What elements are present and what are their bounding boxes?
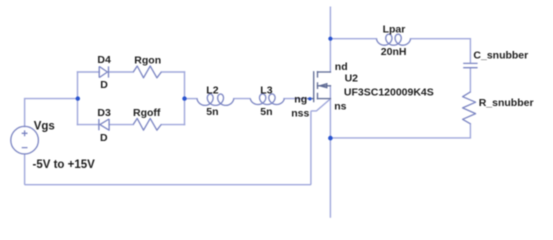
svg-text:D: D: [100, 132, 108, 144]
svg-text:U2: U2: [345, 73, 359, 85]
svg-text:nd: nd: [335, 61, 348, 73]
svg-text:D3: D3: [97, 107, 111, 119]
svg-text:-5V to +15V: -5V to +15V: [33, 159, 96, 171]
svg-text:D: D: [100, 79, 108, 91]
svg-text:20nH: 20nH: [381, 46, 407, 58]
svg-text:L3: L3: [260, 84, 272, 96]
svg-text:L2: L2: [206, 84, 218, 96]
svg-text:5n: 5n: [206, 106, 218, 118]
svg-text:D4: D4: [97, 54, 111, 66]
svg-text:C_snubber: C_snubber: [473, 49, 528, 61]
svg-text:ns: ns: [334, 100, 346, 112]
svg-text:5n: 5n: [260, 106, 272, 118]
svg-text:Lpar: Lpar: [383, 24, 406, 36]
svg-text:R_snubber: R_snubber: [479, 97, 534, 109]
svg-text:UF3SC120009K4S: UF3SC120009K4S: [344, 86, 434, 98]
svg-text:Vgs: Vgs: [34, 121, 55, 133]
svg-text:ng: ng: [294, 93, 307, 105]
svg-text:Rgoff: Rgoff: [133, 107, 161, 119]
svg-text:nss: nss: [291, 108, 309, 120]
svg-text:Rgon: Rgon: [134, 54, 161, 66]
